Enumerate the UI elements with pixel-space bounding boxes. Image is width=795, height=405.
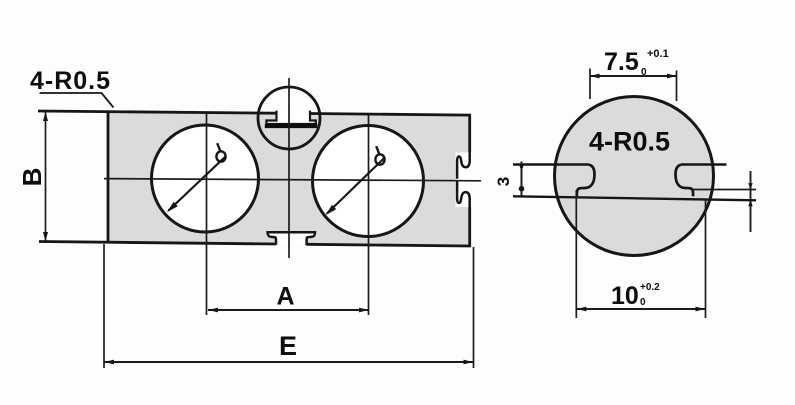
dimension 7.5 extension lines (589, 69, 591, 100)
svg-text:4-R0.5: 4-R0.5 (30, 67, 111, 95)
dimension E line (104, 361, 474, 363)
horizontal center line (104, 179, 481, 181)
svg-text:B: B (17, 168, 47, 187)
dimension 7.5 line (590, 75, 678, 77)
plate bottom edge (39, 242, 470, 247)
right edge notch (white cut) (456, 153, 472, 208)
disc left slot bulb (577, 165, 595, 197)
diameter leader hole 2 (327, 157, 385, 213)
svg-text:3: 3 (494, 177, 513, 186)
right notch lower profile (457, 181, 470, 210)
dimension 3 line (521, 162, 523, 197)
diameter leader hole 1 (169, 156, 227, 211)
right tiny dimension line (750, 171, 752, 232)
disc left slot top line (513, 163, 589, 166)
hole 1 (left big circle) (152, 125, 259, 232)
svg-text:10: 10 (611, 282, 639, 310)
small circle at top (258, 87, 320, 149)
svg-text:+0.2: +0.2 (640, 282, 660, 293)
top T-slot cavity (266, 111, 315, 124)
hole 2 (right big circle) (313, 126, 424, 237)
plate right edge lower (468, 208, 471, 248)
svg-text:0: 0 (641, 67, 647, 78)
svg-text:E: E (279, 331, 297, 361)
dimension E extension right (473, 247, 475, 368)
svg-text:A: A (276, 283, 294, 311)
leader for 4-R0.5 (40, 93, 114, 108)
svg-text:7.5: 7.5 (604, 48, 639, 76)
disc right slot top line (681, 163, 727, 166)
dimension A line (208, 309, 369, 311)
dimension B line (45, 111, 47, 241)
disc long bottom slot line (513, 196, 756, 200)
svg-text:+0.1: +0.1 (647, 48, 669, 60)
vertical center line slots (288, 78, 290, 258)
plate top edge (38, 111, 470, 115)
plate body (left view) (108, 112, 470, 246)
vertical center line hole 2 (368, 114, 370, 315)
plate right edge upper (468, 114, 471, 152)
bottom T-slot cavity (268, 232, 315, 245)
dimension 10 line (576, 308, 705, 310)
svg-text:0: 0 (640, 297, 646, 308)
right lip extension line (692, 189, 756, 191)
right notch upper profile (457, 150, 470, 179)
phi symbol hole 2 (375, 154, 384, 164)
plate left edge (107, 110, 110, 243)
dimension E extension left (103, 244, 105, 368)
svg-text:4-R0.5: 4-R0.5 (589, 127, 670, 157)
top T-slot thick bottom bar (265, 124, 318, 128)
phi symbol hole 1 (216, 151, 225, 161)
disc body (555, 97, 714, 256)
dimension 10 extension lines (575, 190, 577, 318)
disc right slot bulb (676, 165, 694, 197)
vertical center line hole 1 (206, 113, 208, 316)
